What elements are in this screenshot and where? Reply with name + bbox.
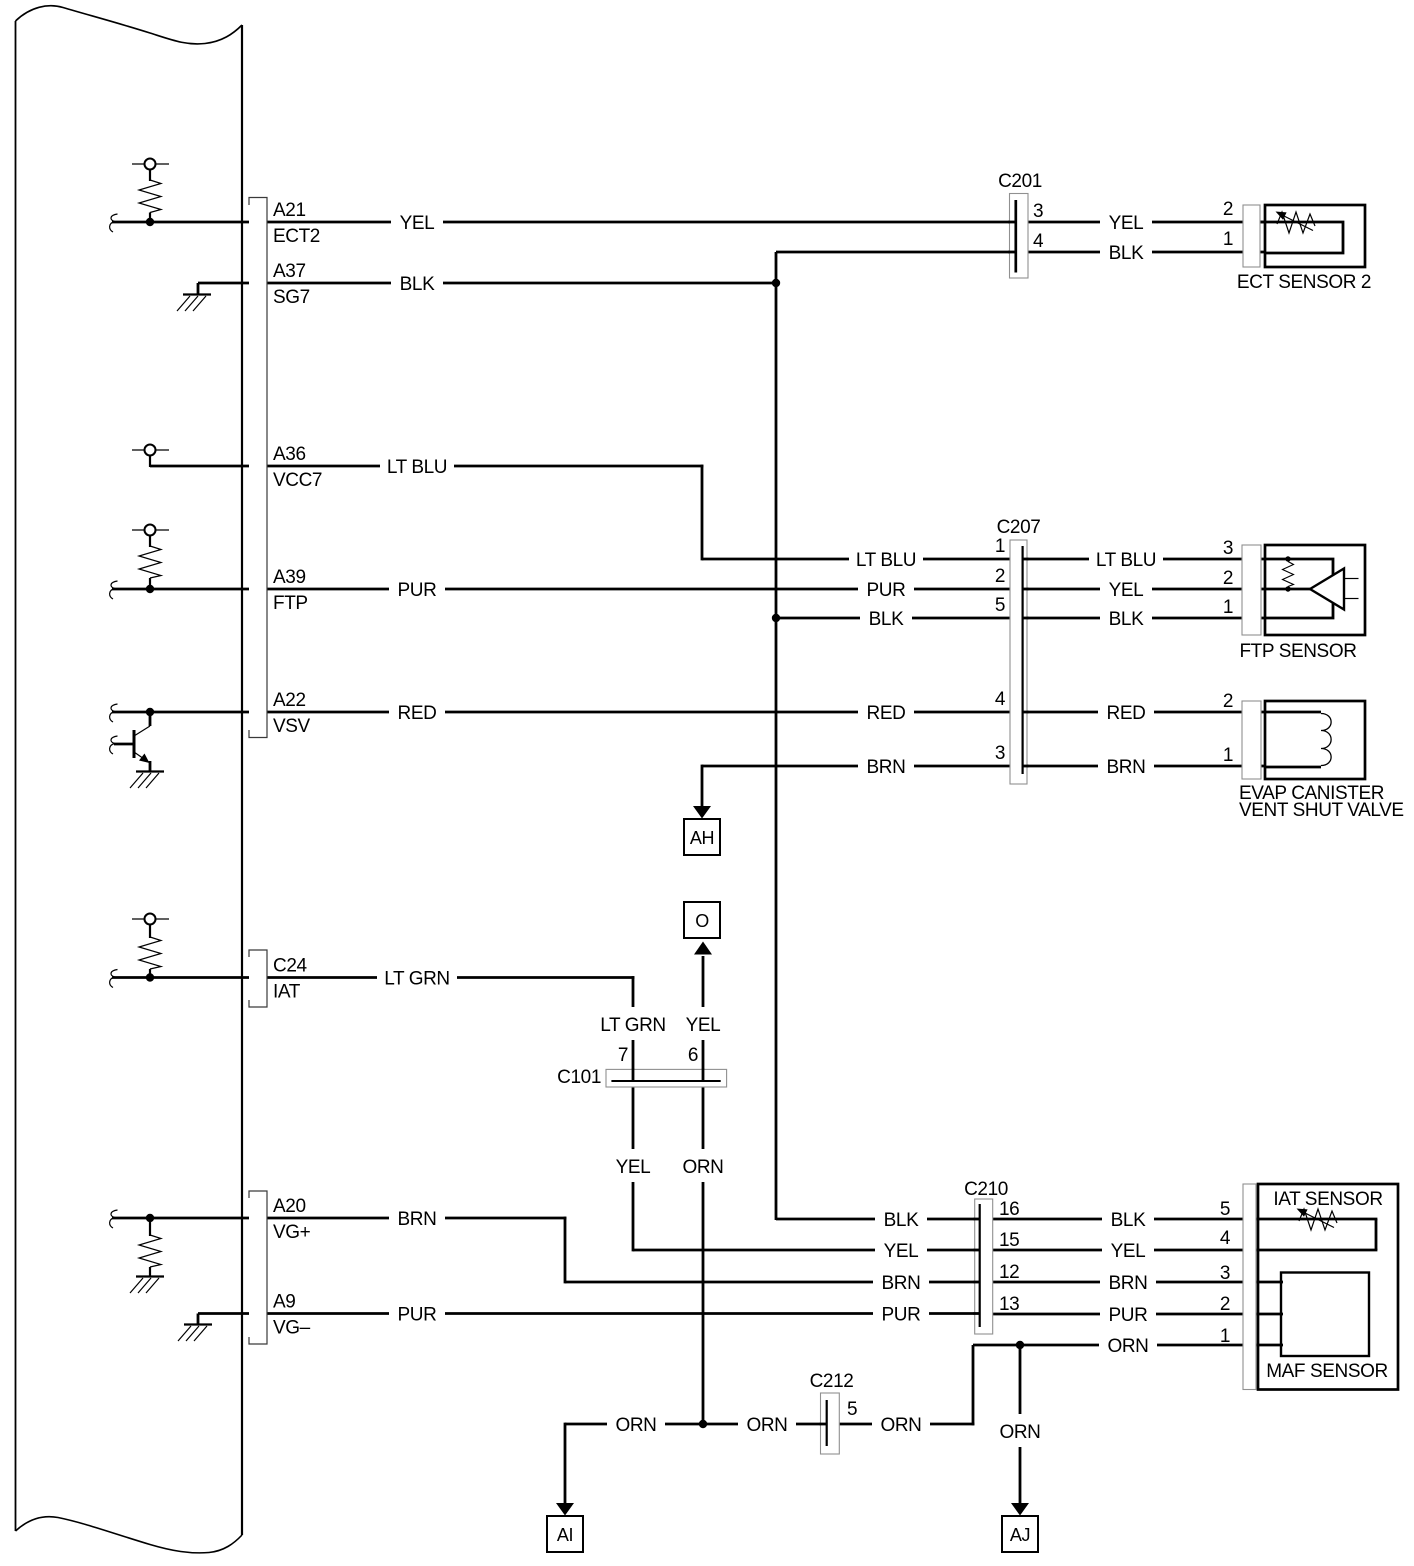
pin A9 / VG- labels — [273, 1292, 311, 1339]
wire label YEL (vertical, below C101 pin7) — [607, 1149, 659, 1182]
junction node A21 — [146, 218, 154, 226]
wire ORN: C101 pin6 lower side down to junction at y=1424 — [702, 1087, 705, 1425]
svg-text:YEL: YEL — [400, 213, 435, 234]
wire stubs at connector C201 — [1008, 222, 1017, 252]
svg-text:ORN: ORN — [880, 1415, 921, 1436]
power symbol (pull-up supply) at A39 — [132, 525, 169, 548]
connector C210 — [964, 1179, 1019, 1334]
svg-text:AI: AI — [557, 1525, 573, 1545]
wire stubs at connector C210 — [974, 1219, 981, 1314]
svg-text:5: 5 — [1220, 1199, 1230, 1220]
svg-text:ORN: ORN — [615, 1415, 656, 1436]
svg-text:3: 3 — [1220, 1263, 1230, 1284]
svg-text:VG–: VG– — [273, 1318, 311, 1339]
svg-text:7: 7 — [618, 1045, 628, 1066]
svg-text:YEL: YEL — [1109, 213, 1144, 234]
pin A39 / FTP labels — [273, 567, 308, 614]
wire label BRN (to C210 pin12) — [873, 1273, 929, 1294]
wire label YEL (C210 to IAT pin4) — [1102, 1241, 1154, 1262]
resistor (pull-down) for A20 — [139, 1218, 161, 1276]
svg-text:YEL: YEL — [1109, 580, 1144, 601]
svg-text:A9: A9 — [273, 1292, 295, 1313]
ground symbol at A37/SG7 — [177, 283, 211, 311]
wire label ORN (junction to C212) — [738, 1415, 796, 1436]
wire label LT BLU (to C207 pin1) — [849, 550, 923, 571]
off-page connector AH (arrow + box) — [684, 806, 720, 855]
svg-text:13: 13 — [999, 1294, 1019, 1315]
ground symbol at A20 resistor — [130, 1277, 164, 1294]
wire label BLK (to C210 pin16) — [875, 1210, 927, 1231]
wire ORN branch drop to AJ box — [1019, 1345, 1022, 1503]
svg-text:VCC7: VCC7 — [273, 470, 322, 491]
svg-text:1: 1 — [995, 536, 1005, 557]
svg-text:RED: RED — [1107, 703, 1146, 724]
wire label YEL (C207 to FTP pin2) — [1100, 580, 1152, 601]
svg-text:2: 2 — [1220, 1294, 1230, 1315]
svg-text:VSV: VSV — [273, 716, 311, 737]
power symbol at A36/VCC7 — [132, 445, 169, 468]
junction node A20 — [146, 1214, 154, 1222]
wire-break squiggle A39 — [110, 581, 118, 599]
ground symbol at A9/VG- — [178, 1314, 212, 1342]
resistor (pull-up) for A21 — [139, 180, 161, 219]
wire label YEL (C201 to ECT pin2) — [1100, 213, 1152, 234]
resistor (pull-up) for C24 — [139, 937, 161, 975]
svg-text:A22: A22 — [273, 690, 306, 711]
svg-text:5: 5 — [995, 595, 1005, 616]
svg-text:3: 3 — [995, 743, 1005, 764]
wire stubs at connector C101 — [633, 1069, 703, 1082]
wire A39 PUR: pin to C207 pin2 to FTP SENSOR pin 2 — [112, 588, 1266, 591]
svg-text:RED: RED — [398, 703, 437, 724]
svg-text:A21: A21 — [273, 200, 306, 221]
junction node BLK trunk at C207 branch — [772, 614, 780, 622]
ground symbol at transistor emitter — [130, 772, 164, 789]
svg-text:SG7: SG7 — [273, 287, 310, 308]
off-page connector AJ (arrow + box) — [1002, 1503, 1038, 1552]
wire label BLK (C201 to ECT pin1) — [1100, 243, 1152, 264]
svg-text:2: 2 — [1223, 568, 1233, 589]
pin C24 / IAT labels — [273, 956, 307, 1003]
wire C24 LT GRN: pin to corner x=633 down to C101 pin7 — [112, 976, 634, 1080]
svg-text:AH: AH — [690, 828, 714, 848]
wire label RED (C207 to EVAP pin2) — [1098, 703, 1154, 724]
thermistor symbol in IAT SENSOR — [1297, 1209, 1338, 1231]
connector C201 — [998, 171, 1044, 278]
svg-text:YEL: YEL — [1111, 1241, 1146, 1262]
wire-break squiggle A22 collector wire — [110, 704, 118, 722]
wire label BLK (to C207 pin5) — [860, 609, 912, 630]
thermistor symbol in ECT SENSOR 2 — [1276, 212, 1316, 234]
wire label BRN (to C207 pin3) — [858, 757, 914, 778]
connector half (bracket) at ECT SENSOR 2 — [1243, 205, 1260, 267]
pin A20 / VG+ labels — [273, 1196, 311, 1243]
svg-text:BLK: BLK — [1109, 609, 1144, 630]
svg-text:C101: C101 — [557, 1067, 601, 1088]
junction node A22 collector — [146, 708, 154, 716]
svg-text:C212: C212 — [810, 1371, 854, 1392]
EVAP valve pin numbers — [1223, 691, 1233, 766]
wire A37 BLK: ground pin to junction — [198, 282, 777, 285]
connector half (bracket) at IAT/MAF SENSOR — [1243, 1184, 1256, 1390]
wire YEL: C101 pin7 lower side down to corner, to C210 pin15, to IAT SENSOR pin 4 — [633, 1087, 1377, 1251]
svg-text:LT BLU: LT BLU — [1096, 550, 1156, 571]
wire A9 PUR: pin to C210 pin13 to MAF pin 2 — [198, 1312, 1283, 1315]
svg-text:LT BLU: LT BLU — [856, 550, 916, 571]
svg-text:3: 3 — [1033, 201, 1043, 222]
wire A21 YEL: pin to C201 pin3 to ECT SENSOR 2 pin 2 — [112, 221, 1266, 224]
svg-text:YEL: YEL — [686, 1015, 721, 1036]
connector half (bracket) at FTP SENSOR — [1242, 545, 1261, 635]
svg-text:O: O — [695, 911, 709, 931]
wire label BRN (A20) — [389, 1209, 445, 1230]
wire label BRN (C207 to EVAP pin1) — [1098, 757, 1154, 778]
junction node A39 — [146, 585, 154, 593]
svg-text:ORN: ORN — [746, 1415, 787, 1436]
wire stub at connector C212 — [820, 1423, 828, 1426]
connector C207 — [995, 517, 1041, 784]
wire BLK trunk corner to C210 pin16 to IAT SENSOR pin 5 — [776, 1218, 1377, 1221]
svg-text:BRN: BRN — [867, 757, 906, 778]
wire label PUR (A39) — [389, 580, 445, 601]
svg-text:PUR: PUR — [398, 1305, 437, 1326]
wire label ORN (left of junction, to AI) — [607, 1415, 665, 1436]
svg-text:LT GRN: LT GRN — [600, 1015, 666, 1036]
svg-text:1: 1 — [1223, 745, 1233, 766]
svg-text:ECT SENSOR 2: ECT SENSOR 2 — [1237, 272, 1371, 293]
wire label PUR (to C210 pin13) — [873, 1305, 929, 1326]
junction node ORN at x=703 — [699, 1420, 707, 1428]
svg-text:VG+: VG+ — [273, 1222, 311, 1243]
transistor Q (output driver) at A22 — [114, 712, 150, 772]
wire A22 RED: pin to C207 pin4 to EVAP valve pin 2 — [112, 711, 1266, 714]
wire label ORN (to MAF pin1) — [1099, 1336, 1157, 1357]
junction node ORN at AJ branch — [1016, 1341, 1024, 1349]
svg-text:C201: C201 — [998, 171, 1042, 192]
FTP SENSOR pin numbers — [1223, 538, 1233, 618]
wire-break squiggle A22 base wire — [110, 736, 118, 754]
IAT/MAF pin numbers — [1220, 1199, 1231, 1347]
svg-text:3: 3 — [1223, 538, 1233, 559]
svg-text:15: 15 — [999, 1230, 1019, 1251]
wire label BLK (A37) — [391, 274, 443, 295]
resistor (pull-up) for A39 — [139, 546, 161, 586]
svg-text:BLK: BLK — [1111, 1210, 1146, 1231]
svg-text:ECT2: ECT2 — [273, 226, 320, 247]
svg-text:A20: A20 — [273, 1196, 306, 1217]
wire-break squiggle A21 — [110, 214, 118, 232]
svg-text:AJ: AJ — [1010, 1525, 1030, 1545]
wire A20 BRN: pin to corner x=565 down to C210 pin12 to MAF pin 3 — [112, 1217, 1283, 1284]
wire BLK trunk vertical at x=776 — [775, 252, 778, 1220]
svg-text:BLK: BLK — [400, 274, 435, 295]
ECM/PCM connector body (torn-edge panel) — [16, 6, 243, 1553]
wire label ORN (vertical branch to AJ) — [991, 1414, 1049, 1447]
ECT SENSOR 2 body — [1260, 205, 1365, 267]
svg-text:PUR: PUR — [398, 580, 437, 601]
wire-break squiggle A20 — [110, 1210, 118, 1228]
svg-text:IAT: IAT — [273, 982, 301, 1003]
svg-text:LT GRN: LT GRN — [384, 969, 450, 990]
svg-text:C24: C24 — [273, 956, 307, 977]
svg-text:MAF SENSOR: MAF SENSOR — [1266, 1361, 1388, 1382]
solenoid coil in EVAP valve — [1321, 714, 1331, 766]
svg-text:BLK: BLK — [869, 609, 904, 630]
svg-text:RED: RED — [867, 703, 906, 724]
svg-text:BLK: BLK — [884, 1210, 919, 1231]
pin A37 / SG7 labels — [273, 261, 310, 308]
junction node BLK trunk at A37 — [772, 279, 780, 287]
svg-text:BLK: BLK — [1109, 243, 1144, 264]
wire label YEL (to C210 pin15) — [875, 1241, 927, 1262]
svg-text:PUR: PUR — [867, 580, 906, 601]
wire YEL: from O box arrow down to C101 pin6 — [702, 956, 705, 1080]
svg-text:VENT SHUT VALVE: VENT SHUT VALVE — [1239, 800, 1404, 821]
svg-text:ORN: ORN — [1107, 1336, 1148, 1357]
power symbol (pull-up supply) at A21 — [132, 159, 169, 182]
svg-text:FTP: FTP — [273, 593, 308, 614]
wire label PUR (to C207 pin2) — [858, 580, 914, 601]
wire label YEL (A21) — [391, 213, 443, 234]
svg-text:IAT SENSOR: IAT SENSOR — [1273, 1189, 1382, 1210]
wire label RED (A22) — [389, 703, 445, 724]
IAT/MAF SENSOR body — [1258, 1184, 1398, 1390]
svg-text:PUR: PUR — [1109, 1305, 1148, 1326]
wire ORN horizontal run: AI corner to C212 pin5 and onward, up at x=973 to MAF pin 1 — [565, 1345, 1283, 1425]
svg-text:4: 4 — [1220, 1228, 1231, 1249]
svg-text:BRN: BRN — [1109, 1273, 1148, 1294]
wire-break squiggle C24 — [110, 970, 118, 988]
svg-text:2: 2 — [995, 566, 1005, 587]
ECT SENSOR 2 pin numbers — [1223, 199, 1233, 250]
svg-text:A36: A36 — [273, 444, 306, 465]
svg-text:BRN: BRN — [1107, 757, 1146, 778]
svg-text:C210: C210 — [964, 1179, 1008, 1200]
wire BRN: C207 pin3 to EVAP valve pin 1, and drop to AH — [702, 765, 1266, 807]
svg-text:FTP SENSOR: FTP SENSOR — [1239, 641, 1356, 662]
EVAP CANISTER VENT SHUT VALVE body — [1265, 701, 1365, 779]
svg-text:6: 6 — [688, 1045, 698, 1066]
pin A21 / ECT2 labels — [273, 200, 320, 247]
svg-text:A37: A37 — [273, 261, 306, 282]
wire label RED (to C207 pin4) — [858, 703, 914, 724]
wire BLK branch to C207 pin5 to FTP SENSOR pin 1 — [776, 617, 1266, 620]
svg-text:ORN: ORN — [999, 1422, 1040, 1443]
amplifier triangle in FTP SENSOR — [1310, 569, 1359, 610]
svg-text:A39: A39 — [273, 567, 306, 588]
wire A36 LT BLU: pin to corner to C207 pin1 to FTP SENSOR pin 3 — [150, 465, 1266, 561]
connector half (bracket) at EVAP valve — [1242, 701, 1261, 779]
wire label YEL (vertical, above C101 pin6) — [677, 1007, 729, 1040]
off-page connector AI (arrow + box) — [547, 1503, 583, 1552]
wire label LT BLU (C207 to FTP pin3) — [1089, 550, 1163, 571]
wire label BRN (C210 to MAF pin3) — [1100, 1273, 1156, 1294]
junction node C24 — [146, 973, 154, 981]
wire label PUR (A9) — [389, 1305, 445, 1326]
MAF element inner box — [1281, 1273, 1369, 1357]
wire stubs at connector C207 — [1022, 559, 1029, 766]
off-page connector O (box + upward arrow) — [684, 902, 720, 955]
pin A22 / VSV labels — [273, 690, 311, 737]
svg-text:5: 5 — [847, 1399, 857, 1420]
wire label LT BLU (A36) — [380, 457, 454, 478]
pin-group bracket C24 — [249, 950, 267, 1007]
wire label LT GRN (vertical, above C101 pin7) — [593, 1007, 673, 1040]
power symbol (pull-up supply) at C24 — [132, 914, 169, 939]
resistor in FTP SENSOR — [1283, 556, 1294, 591]
svg-text:BRN: BRN — [882, 1273, 921, 1294]
svg-text:1: 1 — [1223, 597, 1233, 618]
svg-text:ORN: ORN — [682, 1157, 723, 1178]
wire label PUR (C210 to MAF pin2) — [1100, 1305, 1156, 1326]
svg-text:BRN: BRN — [398, 1209, 437, 1230]
EVAP valve label — [1239, 783, 1404, 821]
connector C101 (horizontal) — [557, 1045, 726, 1088]
svg-text:16: 16 — [999, 1199, 1019, 1220]
svg-text:2: 2 — [1223, 691, 1233, 712]
wire label BLK (C207 to FTP pin1) — [1100, 609, 1152, 630]
svg-text:4: 4 — [995, 689, 1006, 710]
svg-text:1: 1 — [1223, 229, 1233, 250]
svg-text:PUR: PUR — [882, 1305, 921, 1326]
svg-text:LT BLU: LT BLU — [387, 457, 447, 478]
svg-text:1: 1 — [1220, 1326, 1230, 1347]
svg-text:4: 4 — [1033, 231, 1044, 252]
svg-text:YEL: YEL — [616, 1157, 651, 1178]
svg-text:12: 12 — [999, 1262, 1019, 1283]
svg-text:2: 2 — [1223, 199, 1233, 220]
svg-text:C207: C207 — [997, 517, 1041, 538]
wire ORN drop to AI box — [564, 1423, 567, 1503]
FTP SENSOR body — [1265, 545, 1365, 635]
wire label ORN (C212 to corner) — [872, 1415, 930, 1436]
pin A36 / VCC7 labels — [273, 444, 322, 491]
wire BLK C201 pin4 run to ECT SENSOR 2 pin 1 — [776, 251, 1266, 254]
wire label LT GRN (C24) — [377, 969, 457, 990]
svg-text:YEL: YEL — [884, 1241, 919, 1262]
pin-group bracket A21-A22 — [249, 198, 267, 738]
wire label BLK (C210 to IAT pin5) — [1102, 1210, 1154, 1231]
wire label ORN (vertical, below C101 pin6) — [674, 1149, 732, 1182]
connector C212 — [810, 1371, 858, 1454]
pin-group bracket A20-A9 — [249, 1191, 267, 1344]
